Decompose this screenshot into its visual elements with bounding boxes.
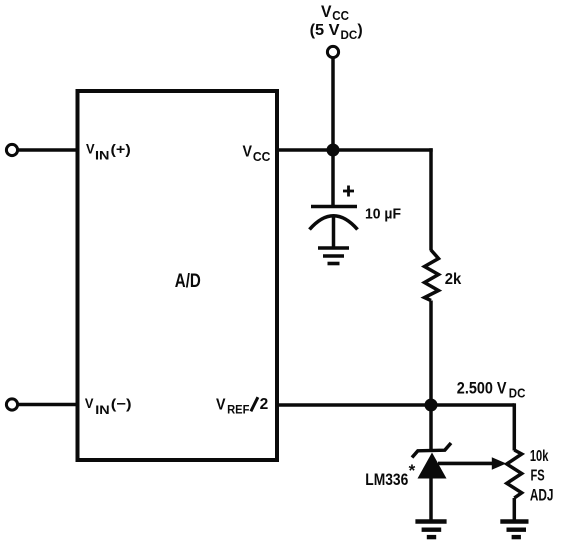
svg-text:IN: IN bbox=[95, 150, 109, 162]
wire junction down to LM336 bbox=[429, 405, 433, 452]
label VCC (5 VDC) bbox=[310, 3, 363, 42]
pin label VIN(-) bbox=[85, 395, 132, 417]
node VIN- input terminal bbox=[6, 399, 17, 410]
svg-text:REF: REF bbox=[227, 403, 249, 417]
node junction dot at VCC bbox=[327, 144, 340, 157]
svg-text:CC: CC bbox=[332, 8, 349, 23]
svg-text:10k: 10k bbox=[530, 448, 549, 465]
wire arrow from LM336 adj to pot wiper bbox=[438, 462, 494, 466]
wire LM336 to ground bbox=[429, 478, 433, 522]
node junction dot at VREF/2 bbox=[425, 399, 438, 412]
wire down from VCC junction to capacitor bbox=[331, 150, 335, 206]
svg-text:A/D: A/D bbox=[175, 270, 201, 292]
wire capacitor to ground bbox=[332, 216, 336, 248]
svg-text:(−): (−) bbox=[111, 396, 132, 412]
label 2.500 VDC bbox=[457, 378, 526, 400]
svg-text:2.500 V: 2.500 V bbox=[457, 378, 507, 397]
pin label VREF/2 bbox=[216, 396, 268, 417]
arrowhead at pot bbox=[492, 457, 507, 470]
svg-text:FS: FS bbox=[531, 467, 545, 484]
svg-text:IN: IN bbox=[95, 405, 109, 417]
ground below pot bbox=[500, 522, 528, 538]
svg-text:DC: DC bbox=[509, 385, 526, 400]
svg-text:*: * bbox=[409, 461, 416, 480]
svg-text:V: V bbox=[86, 140, 95, 156]
wire VIN+ to box bbox=[19, 148, 78, 152]
wire from VCC terminal down to junction bbox=[331, 58, 335, 150]
svg-text:(+): (+) bbox=[111, 141, 131, 157]
wire VIN- to box bbox=[19, 403, 78, 407]
svg-text:V: V bbox=[216, 397, 226, 414]
wire from 2k down to VREF junction bbox=[429, 301, 433, 406]
node VIN+ input terminal bbox=[6, 144, 17, 155]
svg-text:LM336: LM336 bbox=[365, 471, 408, 489]
pin label VCC on box bbox=[243, 143, 271, 163]
ground below capacitor bbox=[318, 248, 349, 264]
diode D1 LM336 triangle bbox=[418, 453, 447, 479]
label LM336* bbox=[365, 461, 415, 489]
op-amp U1 A/D converter box bbox=[78, 91, 278, 460]
ground below LM336 bbox=[415, 522, 446, 538]
node VCC supply terminal bbox=[327, 46, 338, 57]
svg-text:CC: CC bbox=[253, 150, 271, 164]
resistor 2k bbox=[425, 250, 439, 301]
wire VREF/2 row from box to pot corner bbox=[277, 403, 514, 407]
label 10k FS ADJ bbox=[530, 448, 554, 505]
pin label VIN(+) bbox=[86, 140, 131, 162]
svg-text:): ) bbox=[357, 22, 362, 39]
capacitor C1 bottom curved plate bbox=[310, 216, 358, 230]
svg-text:DC: DC bbox=[341, 28, 358, 42]
svg-text:10 µF: 10 µF bbox=[365, 206, 401, 223]
wire pot to ground bbox=[513, 498, 517, 522]
svg-text:2k: 2k bbox=[445, 271, 462, 288]
svg-text:2: 2 bbox=[260, 396, 269, 413]
capacitor C1 top plate bbox=[311, 205, 357, 209]
wire right branch down to 2k resistor bbox=[429, 148, 433, 250]
capacitor C1 10uF plus sign bbox=[343, 186, 354, 197]
wire from VREF row down to pot bbox=[513, 403, 517, 450]
svg-text:V: V bbox=[243, 143, 253, 160]
diode D1 LM336 zener bar bbox=[412, 443, 451, 458]
wire VCC pin from box to right corner bbox=[277, 148, 433, 152]
svg-text:(5 V: (5 V bbox=[310, 22, 340, 39]
potentiometer 10k FS ADJ bbox=[507, 450, 522, 498]
svg-text:ADJ: ADJ bbox=[530, 487, 554, 505]
svg-text:V: V bbox=[321, 3, 332, 21]
svg-text:V: V bbox=[85, 395, 94, 411]
